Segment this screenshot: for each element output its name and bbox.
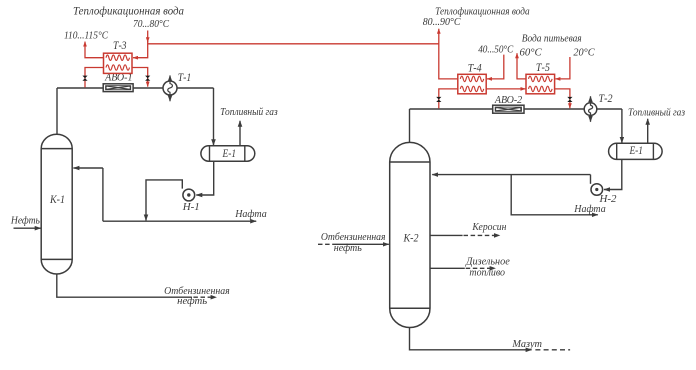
wire: drop into E-1 left [213, 88, 215, 145]
heat exchanger T-1 [163, 76, 177, 102]
valve on left T-3 riser [82, 76, 87, 81]
wire: process return right of T-3 [132, 68, 148, 87]
svg-text:Нафта: Нафта [234, 208, 267, 220]
svg-text:К-1: К-1 [49, 194, 65, 206]
wire: water out 80...90C [439, 29, 458, 79]
wire: water feed 70...80C down to T-3 [147, 31, 149, 43]
svg-text:К-2: К-2 [403, 233, 419, 245]
wire: H-2 discharge riser [590, 175, 592, 184]
wire: process up into T-4 [439, 89, 458, 109]
wire: K-2 bottoms Mazut [410, 328, 532, 350]
svg-text:АВО-2: АВО-2 [494, 94, 523, 106]
wire: hot water out of T-3 to 110...115C [85, 42, 104, 58]
wire: process return right of T-5 [555, 89, 570, 108]
svg-text:нефть: нефть [334, 243, 362, 254]
svg-text:Топливный газ: Топливный газ [628, 108, 685, 119]
svg-text:60°С: 60°С [519, 46, 542, 58]
wire: drinking water out 60C [517, 53, 526, 79]
column K-1 [41, 134, 72, 274]
heat exchanger T-4 [458, 74, 486, 94]
separator E-1 left [201, 146, 255, 161]
valve on right T-3 riser [145, 76, 150, 81]
wire: fuel gas off E-1 left [239, 121, 241, 146]
svg-text:Е-1: Е-1 [222, 148, 236, 160]
svg-text:110...115°С: 110...115°С [64, 30, 109, 42]
svg-text:Мазут: Мазут [511, 339, 542, 350]
svg-text:Керосин: Керосин [471, 222, 506, 233]
pump H-2 [591, 184, 603, 196]
svg-text:Т-2: Т-2 [599, 93, 613, 105]
valve on left T-4 riser [436, 97, 441, 102]
wire: T-4 to T-5 process line [486, 88, 525, 90]
wire: drinking water in 20C [555, 57, 570, 79]
heat exchanger T-5 [526, 74, 555, 94]
wire: drop into E-1 right [621, 109, 623, 143]
wire: H-1 discharge [146, 180, 182, 221]
wire: K-1 overhead nozzle [56, 88, 58, 135]
wire: water feed 40...50C into T-4 [487, 55, 504, 79]
wire: reflux header to K-2 [432, 174, 590, 176]
wire: process bypass up left of T-3 [85, 68, 104, 88]
svg-text:Дизельное: Дизельное [465, 257, 510, 268]
wire: naphtha header left [103, 220, 256, 222]
svg-text:Т-4: Т-4 [468, 62, 482, 74]
valve on right T-5 riser [567, 97, 572, 102]
svg-text:Теплофикационная вода: Теплофикационная вода [73, 5, 184, 17]
svg-text:20°С: 20°С [573, 46, 595, 58]
pump H-1 [183, 189, 195, 201]
svg-text:Т-5: Т-5 [536, 62, 550, 74]
wire: reflux riser [102, 168, 104, 221]
air cooler ABO-2 [493, 105, 524, 113]
svg-text:80...90°С: 80...90°С [423, 16, 461, 28]
wire: E-1 bottoms to pump H-1 [196, 161, 213, 195]
wire: diesel draw [430, 267, 465, 269]
svg-text:Т-3: Т-3 [113, 40, 127, 52]
wire: K-1 bottoms line [57, 274, 192, 297]
wire: K-2 overhead nozzle [409, 109, 411, 143]
wire: E-1 right bottoms to pump H-2 [604, 159, 622, 189]
svg-text:Т-1: Т-1 [178, 72, 192, 84]
wire: fuel gas off E-1 right [647, 119, 649, 144]
heat exchanger T-2 [584, 96, 597, 122]
svg-text:Топливный газ: Топливный газ [220, 107, 278, 118]
svg-text:Н-1: Н-1 [182, 201, 200, 213]
wire: main overhead line K-1 to corner [57, 87, 214, 89]
wire: long transfer water line to right unit [148, 43, 439, 45]
svg-text:Нефть: Нефть [10, 215, 40, 227]
column K-2 [390, 142, 430, 327]
wire: bottoms dashed continuation with arrow [193, 296, 211, 298]
svg-text:40...50°С: 40...50°С [478, 43, 514, 55]
heat exchanger T-3 [104, 53, 133, 73]
wire: feed Отбензиненная нефть into K-2 [318, 243, 336, 245]
svg-text:Вода питьевая: Вода питьевая [522, 33, 582, 44]
svg-text:70...80°С: 70...80°С [133, 18, 170, 30]
wire: naphtha branch right [511, 175, 598, 215]
svg-text:нефть: нефть [177, 296, 207, 307]
svg-text:Е-1: Е-1 [629, 145, 643, 157]
wire: kerosene draw [430, 234, 463, 236]
svg-text:Теплофикационная вода: Теплофикационная вода [435, 5, 530, 17]
svg-text:Нафта: Нафта [573, 203, 606, 215]
svg-text:топливо: топливо [469, 268, 505, 279]
wire: main overhead line K-2 [410, 108, 622, 110]
separator E-1 right [609, 143, 663, 159]
air cooler ABO-1 [103, 84, 133, 92]
svg-text:Отбензиненная: Отбензиненная [321, 232, 386, 243]
node: crude feed arrow Нефть [14, 227, 41, 229]
wire: reflux into K-1 [73, 167, 103, 169]
